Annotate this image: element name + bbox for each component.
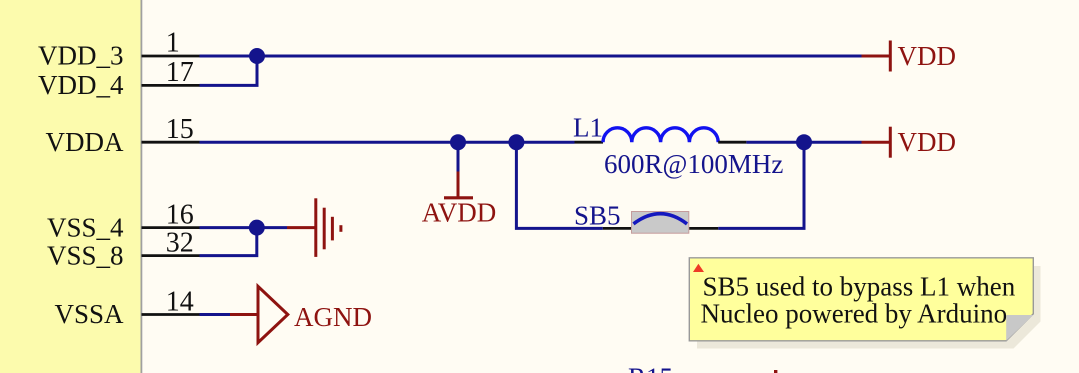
svg-text:SB5 used to bypass L1 when: SB5 used to bypass L1 when xyxy=(703,272,1016,302)
pin 14 (VSSA) xyxy=(54,286,199,329)
svg-text:600R@100MHz: 600R@100MHz xyxy=(604,149,783,179)
junction SB5 branch xyxy=(508,134,524,150)
junction VSS net xyxy=(249,220,265,236)
pin 15 (VDDA) xyxy=(46,114,200,157)
note marker triangle xyxy=(693,264,704,272)
svg-text:VDD_3: VDD_3 xyxy=(38,41,124,71)
inductor L1 xyxy=(573,113,783,180)
svg-text:L1: L1 xyxy=(573,113,603,143)
IC component body (partial, clipped at left) xyxy=(0,0,141,373)
svg-text:AVDD: AVDD xyxy=(422,198,497,228)
svg-text:SB5: SB5 xyxy=(574,201,621,231)
wire SB5 branch down xyxy=(516,142,602,228)
svg-text:Nucleo powered by Arduino: Nucleo powered by Arduino xyxy=(701,299,1008,329)
junction AVDD tap xyxy=(450,134,466,150)
svg-text:14: 14 xyxy=(166,286,194,317)
pin 1 (VDD_3) xyxy=(38,28,200,71)
power symbol AGND xyxy=(230,286,372,342)
wire VDD_4 pin up to junction xyxy=(200,56,258,85)
svg-text:VDD: VDD xyxy=(898,127,957,157)
svg-text:16: 16 xyxy=(166,200,194,231)
note shadow xyxy=(697,266,1041,349)
svg-text:VSS_8: VSS_8 xyxy=(47,240,124,270)
wire AVDD stub xyxy=(457,142,460,171)
wire VSS_4 pin to ground xyxy=(200,226,288,229)
svg-text:VSSA: VSSA xyxy=(54,299,124,329)
pin 16 (VSS_4) xyxy=(47,200,200,243)
sticky note SB5 bypass xyxy=(689,258,1033,341)
svg-text:32: 32 xyxy=(166,227,194,258)
svg-text:15: 15 xyxy=(166,114,194,145)
svg-text:1: 1 xyxy=(166,28,180,59)
svg-text:VDD_4: VDD_4 xyxy=(38,70,124,100)
pin 32 (VSS_8) xyxy=(47,227,200,270)
wire right vertical to SB5 row xyxy=(718,142,804,228)
svg-text:VDD: VDD xyxy=(898,41,957,71)
solder bridge SB5 xyxy=(574,201,718,234)
wire VSS_8 pin up to junction xyxy=(200,228,257,256)
wire VDDA pin to L1 xyxy=(200,141,575,144)
power symbol VDD (VDDA row) xyxy=(862,127,957,158)
svg-text:AGND: AGND xyxy=(294,302,372,332)
junction right of L1 xyxy=(796,134,812,150)
power symbol VDD (top) xyxy=(862,41,957,72)
ground symbol (earth) xyxy=(287,198,341,257)
svg-text:17: 17 xyxy=(166,57,194,88)
svg-text:VSS_4: VSS_4 xyxy=(47,212,124,242)
power symbol AVDD xyxy=(422,172,497,228)
pin 17 (VDD_4) xyxy=(38,57,200,100)
svg-text:R15: R15 xyxy=(628,363,673,373)
wire VSSA pin to AGND xyxy=(200,313,231,316)
junction VDD net xyxy=(249,48,265,64)
wire VDD_3 pin to VDD rail xyxy=(200,55,862,58)
wire L1 to junction right xyxy=(746,141,861,144)
svg-text:VDDA: VDDA xyxy=(46,127,124,157)
partial power symbol dot (bottom edge) xyxy=(774,370,777,373)
note fold corner xyxy=(1006,315,1033,341)
